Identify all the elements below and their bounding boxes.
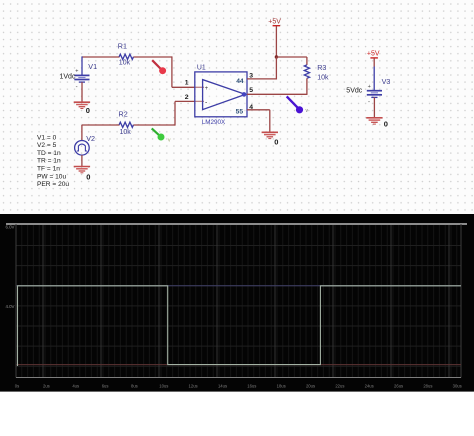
source V1 (VDC battery)	[74, 69, 89, 91]
wire junction to R3 top	[276, 57, 307, 65]
svg-text:22us: 22us	[335, 384, 344, 389]
plot minor vertical gridlines	[16, 225, 457, 378]
svg-text:TR = 1n: TR = 1n	[37, 158, 61, 165]
svg-text:0: 0	[274, 137, 278, 146]
power symbol +5V at V3	[367, 51, 380, 58]
ground 0 at U1 pin 4	[262, 132, 278, 138]
wire U1 pin 5 output net	[247, 93, 307, 95]
svg-text:16us: 16us	[247, 384, 256, 389]
svg-text:+5V: +5V	[367, 51, 380, 58]
svg-text:+: +	[75, 69, 78, 75]
svg-text:14us: 14us	[218, 384, 227, 389]
op-amp U1 body box (LM290X)	[195, 72, 247, 117]
resistor R2	[119, 122, 133, 127]
svg-text:1: 1	[185, 80, 189, 87]
U1 + input mark	[205, 86, 209, 92]
wire +5V down to junction	[275, 26, 277, 57]
plot frame	[6, 224, 467, 378]
plot horizontal gridlines	[16, 246, 461, 367]
label R1	[118, 42, 127, 51]
svg-text:R2: R2	[119, 110, 128, 119]
plot x-axis time labels	[15, 384, 462, 389]
value label 5Vdc	[346, 88, 362, 95]
svg-text:4.0V: 4.0V	[5, 304, 14, 309]
label 0 at V1 ground	[86, 106, 90, 115]
source V3 (VDC battery)	[367, 84, 382, 105]
svg-text:6us: 6us	[102, 384, 109, 389]
wire junction down to pin 3	[275, 57, 277, 80]
svg-text:+5V: +5V	[268, 18, 281, 25]
wire R1 to U1 pin 1 corner	[134, 56, 205, 87]
label V1	[88, 62, 97, 71]
wire +5V to V3 plus	[373, 58, 375, 91]
svg-text:24us: 24us	[365, 384, 374, 389]
U1 - input mark	[205, 100, 208, 107]
label R3	[317, 63, 326, 72]
U1 output dot at triangle tip	[242, 92, 247, 97]
svg-text:26us: 26us	[394, 384, 403, 389]
wire R2 to U1 pin 2 corner	[134, 101, 205, 125]
junction node +5V/R3/pin3	[275, 55, 278, 58]
svg-text:V1 = 0: V1 = 0	[37, 134, 57, 141]
svg-text:PER = 20u: PER = 20u	[37, 181, 69, 188]
resistor R1	[119, 54, 133, 59]
svg-text:1Vdc: 1Vdc	[60, 73, 76, 80]
svg-text:0s: 0s	[15, 384, 19, 389]
svg-text:5Vdc: 5Vdc	[346, 88, 362, 95]
svg-text:30us: 30us	[453, 384, 462, 389]
simulation plot panel background	[0, 214, 474, 392]
pin label 3	[249, 73, 253, 80]
svg-text:6.0V: 6.0V	[5, 225, 14, 230]
voltage probe marker (green) on R2 output net	[152, 128, 171, 143]
svg-text:+: +	[205, 86, 209, 92]
svg-text:U1: U1	[197, 64, 206, 71]
svg-text:5: 5	[249, 87, 253, 94]
pin label 4	[249, 104, 253, 111]
wire V3 minus to ground	[373, 97, 375, 117]
svg-text:18us: 18us	[277, 384, 286, 389]
svg-text:V3: V3	[382, 77, 391, 86]
svg-text:10k: 10k	[317, 75, 329, 82]
label V3	[382, 77, 391, 86]
plot major vertical gridlines	[43, 225, 449, 378]
ground 0 at V3	[366, 118, 382, 124]
wire V1 top to R1 (net at y=57)	[82, 56, 120, 58]
source V2 (VPULSE)	[75, 141, 90, 156]
trace V(-input) level (dim blue)	[17, 285, 462, 287]
wire V1 vertical stem	[81, 56, 83, 75]
wire R3 bottom to output net	[306, 78, 308, 95]
wire U1 pin 3 to +5V rail	[247, 78, 276, 80]
power symbol +5V (rail)	[268, 18, 281, 25]
svg-text:12us: 12us	[189, 384, 198, 389]
svg-text:10k: 10k	[119, 59, 131, 66]
svg-text:R3: R3	[317, 63, 326, 72]
schematic sheet background with dot grid	[0, 0, 474, 214]
svg-text:20us: 20us	[306, 384, 315, 389]
wire U1 pin 4 to ground	[247, 110, 270, 133]
voltage probe marker (red) on R1 output net	[152, 60, 166, 74]
wire V2 top to R2 (net at y=125)	[82, 125, 120, 141]
svg-text:V1: V1	[88, 62, 97, 71]
svg-text:8us: 8us	[131, 384, 138, 389]
ground 0 at V1	[74, 102, 90, 108]
label 0 at V2 ground	[86, 173, 90, 182]
svg-text:10k: 10k	[120, 129, 132, 136]
svg-text:2us: 2us	[43, 384, 50, 389]
label V2	[86, 134, 95, 143]
pin label 1	[185, 80, 189, 87]
svg-text:V2: V2	[86, 134, 95, 143]
resistor R3	[304, 65, 309, 78]
svg-text:PW = 10u: PW = 10u	[37, 173, 66, 180]
voltage probe marker (blue) on output net	[287, 96, 309, 114]
svg-text:0: 0	[384, 120, 388, 129]
svg-text:0: 0	[86, 106, 90, 115]
svg-text:10us: 10us	[159, 384, 168, 389]
pin label 2	[185, 94, 189, 101]
svg-text:44: 44	[236, 78, 244, 85]
trace V(output) square wave	[18, 286, 462, 366]
value label 10k (R3)	[317, 75, 329, 82]
plot y-axis labels	[5, 225, 14, 310]
label R2	[119, 110, 128, 119]
pin label 5	[249, 87, 253, 94]
trace V(+input) constant (dim red)	[17, 364, 462, 366]
svg-text:2: 2	[185, 94, 189, 101]
svg-text:-: -	[368, 99, 370, 105]
svg-text:V2 = 5: V2 = 5	[37, 142, 57, 149]
svg-text:55: 55	[236, 108, 244, 115]
label U1	[197, 64, 206, 71]
value label 10k (R2)	[120, 129, 132, 136]
ground 0 at V2	[74, 167, 90, 173]
label 0 at V3 ground	[384, 120, 388, 129]
pin number 55 inside U1	[236, 108, 244, 115]
svg-text:R1: R1	[118, 42, 127, 51]
svg-text:4us: 4us	[72, 384, 79, 389]
wire V1 minus to ground	[81, 82, 83, 102]
svg-text:TF = 1n: TF = 1n	[37, 166, 60, 173]
label 0 at U1 ground	[274, 137, 278, 146]
op-amp U1 triangle	[203, 80, 246, 110]
value label 10k (R1)	[119, 59, 131, 66]
pin number 44 inside U1	[236, 78, 244, 85]
value label 1Vdc	[60, 73, 76, 80]
svg-text:TD = 1n: TD = 1n	[37, 150, 61, 157]
svg-text:LM290X: LM290X	[202, 119, 226, 126]
svg-text:+: +	[368, 84, 371, 90]
wire V2 minus to ground	[81, 155, 83, 166]
label LM290X	[202, 119, 226, 126]
svg-text:0: 0	[86, 173, 90, 182]
svg-text:-: -	[76, 84, 78, 90]
parameter text block for V2	[37, 134, 69, 188]
svg-text:28us: 28us	[423, 384, 432, 389]
